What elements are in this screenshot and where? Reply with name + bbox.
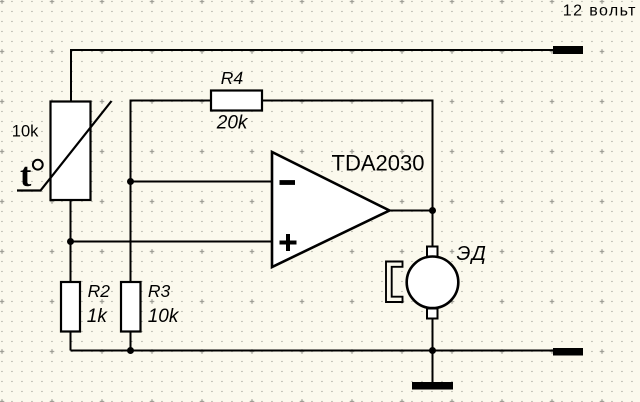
- svg-text:12 вольт: 12 вольт: [563, 3, 637, 20]
- wire op-amp output to node: [390, 210, 433, 212]
- wire R3 column up and across to R4 left: [131, 101, 212, 283]
- terminal bar bottom right: [553, 348, 583, 356]
- motor M1 body circle: [407, 257, 459, 309]
- svg-text:10k: 10k: [12, 122, 39, 140]
- wire motor bottom to rail: [432, 319, 434, 351]
- node: junction dot R3/-input: [127, 178, 134, 185]
- wire non-inverting input: [71, 241, 273, 243]
- motor stator bracket: [386, 262, 403, 303]
- thermistor RK1 body: [51, 102, 91, 201]
- thermistor degree circle: [33, 160, 43, 170]
- svg-text:TDA2030: TDA2030: [332, 151, 425, 176]
- node: junction dot motor bottom rail: [429, 347, 436, 354]
- svg-text:10k: 10k: [148, 306, 180, 327]
- svg-text:1k: 1k: [87, 306, 109, 327]
- terminal bar +12V top right: [553, 46, 583, 54]
- wire node to motor top: [432, 211, 434, 247]
- wire R3 bottom: [130, 332, 132, 351]
- thermistor diagonal stroke: [17, 101, 112, 191]
- resistor R3 body: [121, 282, 141, 332]
- node: junction dot thermistor/R2/+input: [67, 238, 74, 245]
- motor M1 top terminal: [427, 247, 438, 257]
- wire inverting input: [131, 181, 273, 183]
- svg-text:ЭД: ЭД: [457, 243, 488, 265]
- wire R4 right to output column: [262, 101, 433, 211]
- resistor R4 body: [211, 91, 262, 111]
- wire R2 bottom to ground rail: [70, 332, 72, 351]
- motor M1 bottom terminal: [427, 309, 438, 319]
- op-amp U1 TDA2030 triangle: [272, 152, 390, 267]
- svg-text:R3: R3: [148, 281, 171, 301]
- resistor R2 body: [61, 282, 80, 332]
- wire thermistor bottom to R2 top: [70, 200, 72, 282]
- wire bottom rail: [71, 350, 554, 352]
- svg-text:R2: R2: [88, 281, 111, 301]
- ground bar: [412, 382, 453, 390]
- wire top rail from thermistor to +12V terminal: [71, 50, 553, 102]
- wire rail to ground: [432, 351, 434, 383]
- svg-text:R4: R4: [221, 68, 244, 88]
- svg-text:20k: 20k: [216, 113, 249, 134]
- op-amp non-inverting pin plus sign: [280, 234, 297, 251]
- node: junction dot R3 bottom rail: [127, 347, 134, 354]
- op-amp inverting pin minus sign: [280, 180, 296, 185]
- node: junction dot op-amp output: [429, 207, 436, 214]
- svg-text:t: t: [20, 157, 32, 194]
